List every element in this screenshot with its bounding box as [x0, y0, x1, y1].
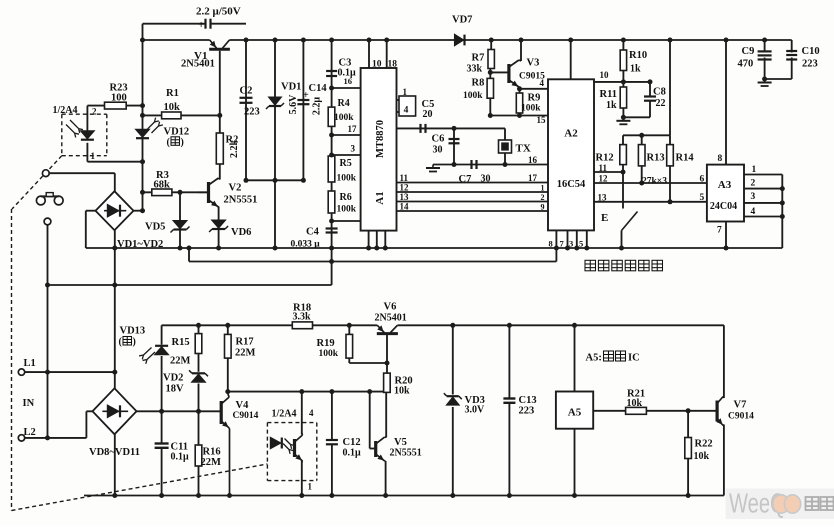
svg-text:C4: C4: [306, 227, 320, 238]
svg-text:A3: A3: [718, 179, 732, 191]
svg-text:R5: R5: [340, 158, 352, 169]
svg-text:R17: R17: [236, 337, 254, 348]
svg-text:100k: 100k: [319, 349, 339, 359]
svg-text:10k: 10k: [164, 102, 181, 113]
svg-text:13: 13: [598, 193, 608, 203]
svg-text:10k: 10k: [394, 386, 410, 397]
svg-text:+: +: [198, 19, 204, 31]
svg-text:100k: 100k: [521, 104, 541, 114]
svg-text:3: 3: [751, 192, 756, 202]
svg-text:C9: C9: [742, 46, 755, 57]
svg-text:4: 4: [404, 106, 409, 116]
svg-text:10: 10: [372, 60, 382, 70]
svg-text:2: 2: [92, 107, 97, 117]
svg-text:VD8~VD11: VD8~VD11: [89, 447, 140, 458]
svg-text:VD6: VD6: [231, 227, 251, 238]
svg-text:2.2μ: 2.2μ: [312, 97, 323, 116]
svg-text:5.6V: 5.6V: [288, 94, 299, 115]
svg-text:22M: 22M: [201, 457, 222, 468]
svg-text:2: 2: [541, 193, 545, 202]
svg-text:8: 8: [549, 239, 553, 249]
svg-text:A2: A2: [564, 128, 578, 140]
svg-text:223: 223: [244, 107, 260, 118]
svg-text:11: 11: [599, 163, 608, 173]
svg-text:C9014: C9014: [233, 411, 259, 421]
svg-text:12: 12: [400, 183, 410, 193]
svg-text:IN: IN: [23, 398, 35, 409]
svg-text:C2: C2: [240, 86, 253, 97]
svg-text:R10: R10: [629, 50, 647, 61]
svg-text:15: 15: [537, 115, 547, 125]
svg-text:R15: R15: [172, 337, 190, 348]
svg-text:VD5: VD5: [145, 222, 165, 233]
svg-text:+: +: [303, 90, 309, 101]
svg-text:17: 17: [348, 124, 358, 134]
svg-text:V3: V3: [527, 58, 540, 69]
svg-text:13: 13: [400, 192, 410, 202]
svg-text:14: 14: [400, 202, 410, 212]
svg-text:): ): [181, 137, 184, 148]
svg-text:VD1~VD2: VD1~VD2: [117, 239, 163, 250]
svg-text:R13: R13: [647, 153, 665, 164]
svg-text:R8: R8: [472, 78, 485, 89]
svg-text:22: 22: [656, 98, 666, 109]
svg-text:17: 17: [528, 173, 538, 183]
svg-text:1: 1: [403, 87, 408, 97]
svg-text:16: 16: [528, 155, 538, 165]
svg-text:6: 6: [700, 175, 705, 185]
svg-text:100k: 100k: [337, 174, 357, 184]
svg-text:16C54: 16C54: [557, 179, 586, 190]
svg-text:3.0V: 3.0V: [465, 405, 486, 416]
svg-text:R6: R6: [340, 192, 352, 203]
svg-text:0.1μ: 0.1μ: [343, 448, 362, 459]
svg-text:MT8870: MT8870: [375, 120, 386, 158]
svg-text:223: 223: [802, 59, 818, 70]
svg-text:24C04: 24C04: [710, 201, 737, 212]
svg-text:4: 4: [540, 78, 545, 88]
svg-text:10: 10: [600, 70, 610, 80]
svg-text:1k: 1k: [606, 100, 617, 111]
svg-text:1k: 1k: [630, 64, 641, 75]
svg-text:C8: C8: [653, 87, 666, 98]
svg-text:C7: C7: [459, 174, 472, 185]
svg-text:470: 470: [738, 59, 754, 70]
svg-text:VD1: VD1: [281, 82, 301, 93]
svg-text:V6: V6: [384, 302, 397, 313]
svg-text:V7: V7: [734, 400, 747, 411]
svg-text:33k: 33k: [467, 64, 483, 75]
svg-text:1/2A4: 1/2A4: [53, 105, 78, 116]
svg-text:12: 12: [599, 174, 609, 184]
svg-text:20: 20: [423, 109, 433, 120]
svg-text:4: 4: [309, 408, 314, 418]
svg-text:A5:: A5:: [586, 353, 602, 364]
svg-text:3: 3: [569, 239, 573, 249]
svg-text:L2: L2: [24, 427, 36, 438]
svg-text:A1: A1: [374, 191, 386, 204]
svg-text:): ): [133, 337, 136, 348]
svg-text:TX: TX: [516, 143, 531, 155]
svg-text:5: 5: [700, 193, 705, 203]
svg-text:VD13: VD13: [120, 326, 146, 337]
svg-text:R12: R12: [596, 153, 614, 164]
svg-text:100k: 100k: [334, 113, 354, 123]
svg-text:2: 2: [751, 179, 756, 189]
svg-text:R16: R16: [203, 447, 221, 458]
svg-text:11: 11: [400, 173, 409, 183]
svg-text:0.1μ: 0.1μ: [171, 452, 190, 463]
svg-text:2N5551: 2N5551: [390, 448, 422, 459]
svg-text:22M: 22M: [170, 356, 191, 367]
svg-text:100k: 100k: [463, 91, 483, 101]
svg-text:R9: R9: [528, 93, 541, 104]
svg-text:R19: R19: [317, 338, 335, 349]
svg-text:VD12: VD12: [164, 127, 190, 138]
svg-text:R4: R4: [338, 98, 350, 109]
svg-text:22M: 22M: [235, 348, 256, 359]
svg-text:1: 1: [752, 165, 757, 175]
svg-text:2.2k: 2.2k: [229, 140, 240, 159]
svg-text:C14: C14: [309, 83, 328, 94]
svg-text:L1: L1: [24, 358, 36, 369]
svg-text:C9014: C9014: [728, 412, 754, 422]
svg-text:R14: R14: [676, 153, 695, 164]
svg-text:V4: V4: [236, 400, 250, 411]
svg-text:68k: 68k: [154, 180, 171, 191]
svg-text:100: 100: [111, 93, 127, 104]
svg-text:18: 18: [388, 60, 398, 70]
svg-text:18V: 18V: [166, 384, 185, 395]
svg-text:VD2: VD2: [163, 373, 183, 384]
svg-text:0.033 μ: 0.033 μ: [291, 240, 321, 250]
svg-text:VD7: VD7: [452, 15, 472, 26]
svg-text:8: 8: [718, 154, 723, 164]
svg-text:30: 30: [481, 174, 491, 185]
svg-text:2.2 μ/50V: 2.2 μ/50V: [196, 6, 241, 18]
svg-text:C13: C13: [519, 395, 537, 406]
svg-text:9: 9: [541, 203, 545, 212]
svg-text:2N5401: 2N5401: [375, 313, 407, 324]
svg-text:100k: 100k: [337, 205, 357, 215]
svg-text:10k: 10k: [627, 398, 643, 409]
svg-text:1: 1: [91, 151, 96, 161]
svg-text:R11: R11: [600, 89, 618, 100]
svg-text:4: 4: [751, 207, 756, 217]
svg-text:A5: A5: [568, 407, 582, 419]
svg-text:10k: 10k: [694, 451, 710, 462]
svg-text:R1: R1: [166, 88, 179, 99]
svg-text:5: 5: [579, 239, 583, 249]
svg-text:C10: C10: [802, 46, 820, 57]
svg-text:30: 30: [433, 145, 443, 156]
svg-text:2N5401: 2N5401: [181, 59, 215, 70]
svg-text:R22: R22: [695, 439, 713, 450]
svg-text:E: E: [601, 212, 608, 224]
svg-text:V2: V2: [229, 183, 242, 194]
svg-text:3.3k: 3.3k: [293, 312, 312, 323]
svg-text:R7: R7: [472, 53, 485, 64]
svg-text:1: 1: [541, 184, 545, 193]
svg-text:1: 1: [308, 482, 313, 492]
svg-text:2N5551: 2N5551: [224, 195, 258, 206]
svg-text:223: 223: [519, 406, 535, 417]
svg-text:C12: C12: [343, 437, 361, 448]
svg-text:V5: V5: [394, 437, 407, 448]
svg-text:16: 16: [344, 76, 353, 86]
svg-text:7: 7: [717, 226, 722, 236]
svg-text:IC: IC: [628, 353, 640, 364]
svg-text:1/2A4: 1/2A4: [272, 409, 297, 420]
svg-text:27k×3: 27k×3: [642, 177, 667, 187]
svg-text:3: 3: [351, 144, 356, 154]
svg-text:C6: C6: [432, 134, 445, 145]
